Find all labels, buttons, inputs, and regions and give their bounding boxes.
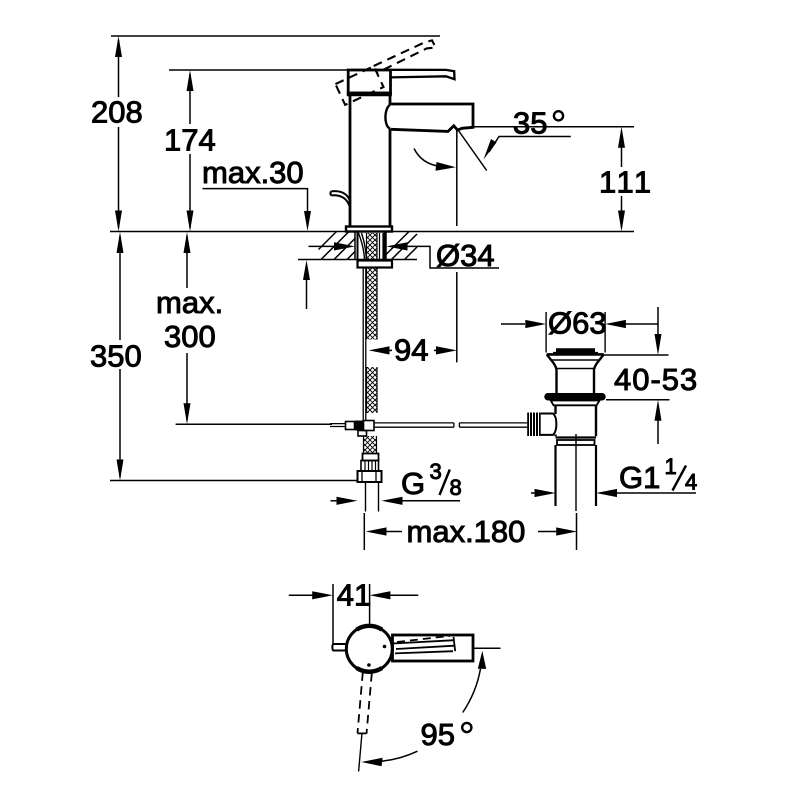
hose braid above G3/8 fitting — [364, 436, 377, 454]
35 swivel arc arrow — [414, 149, 440, 167]
dim 111 reference line at spout outlet — [474, 126, 634, 128]
faucet lever solid — [391, 70, 455, 79]
dim 40-53 extension lines — [604, 355, 670, 400]
95 arc arrowheads — [478, 651, 486, 669]
dim 208 arrows — [115, 36, 122, 232]
top view body circle — [346, 626, 392, 672]
braided hose through counter — [367, 233, 378, 260]
dim Ø34 arrows at shank — [334, 242, 355, 250]
pop-up rod coupling — [346, 422, 355, 430]
svg-text:G1: G1 — [619, 460, 660, 495]
dim max.300 arrows — [184, 232, 191, 424]
dim 35 leader arrowhead — [484, 139, 497, 160]
G3/8 threaded nipple — [366, 482, 379, 512]
counter bottom line — [298, 259, 417, 261]
dim Ø63 line and arrows — [501, 323, 525, 325]
dim max.180 arrows — [366, 527, 577, 535]
svg-text:41: 41 — [337, 578, 371, 613]
svg-text:300: 300 — [164, 319, 216, 354]
dim 41 extension lines — [333, 584, 370, 644]
svg-text:Ø34: Ø34 — [436, 238, 495, 273]
drain knurled knob — [527, 413, 541, 437]
faucet cartridge housing — [348, 70, 390, 93]
coupling lower tab — [358, 431, 367, 437]
svg-text:350: 350 — [90, 339, 142, 374]
svg-text:max.30: max.30 — [202, 155, 304, 190]
faucet lever + cartridge dashed (rotated position) — [335, 39, 441, 105]
dim 174 vertical line — [189, 74, 191, 228]
pop-up rod knob on body — [330, 191, 350, 206]
dim 208 vertical line — [118, 40, 120, 228]
dim 350 arrows — [117, 232, 124, 481]
drain top flange — [547, 353, 604, 356]
svg-text:1: 1 — [665, 454, 677, 479]
shank tube walls in hole — [358, 232, 385, 260]
95 degree arc — [463, 669, 481, 713]
dim G3/8 arrows — [331, 500, 339, 502]
top view lever dashed (down position) — [358, 672, 363, 733]
drain knob socket — [541, 414, 557, 435]
G3/8 nut — [358, 471, 382, 482]
drain tailpipe center line — [575, 434, 577, 511]
dim 350 bottom reference line — [110, 480, 358, 482]
dim 111 arrows — [618, 127, 625, 232]
curved hose inside shank — [359, 233, 367, 260]
drain flared neck — [547, 354, 604, 393]
dim max.30 bottom arrow — [303, 260, 310, 280]
drain pop-up plug cap — [556, 348, 595, 352]
drain lower bands — [556, 436, 597, 438]
svg-text:40-53: 40-53 — [614, 362, 698, 397]
spout outline — [390, 104, 473, 131]
top view pop-up rod tab — [332, 644, 346, 651]
horizontal pop-up rod — [374, 423, 454, 427]
counter hatching left — [319, 232, 356, 260]
svg-text:174: 174 — [164, 123, 216, 158]
locknut below counter — [358, 261, 393, 268]
svg-text:95: 95 — [421, 717, 455, 752]
dim Ø34 leader — [405, 246, 499, 268]
dim 208 top reference line — [111, 35, 440, 37]
dim Ø63 extension lines — [546, 312, 605, 353]
horizontal rod to coupling left end — [330, 424, 346, 427]
top view spout rectangle — [393, 635, 474, 661]
top view spout axis reference line — [473, 647, 501, 649]
drain flange below gasket — [551, 401, 600, 406]
svg-text:max.180: max.180 — [407, 514, 526, 549]
G3/8 ribbed section — [361, 461, 379, 472]
dim 350 vertical line — [119, 236, 121, 477]
pop-up rod housing in shank — [380, 233, 384, 260]
counter hatching right — [386, 232, 417, 260]
dim 174 arrows — [187, 70, 194, 232]
dim 35 underline and leader — [489, 137, 571, 153]
counter top line — [110, 231, 634, 233]
faucet body walls — [349, 96, 352, 227]
svg-text:3: 3 — [430, 459, 442, 484]
dim G1 1/4 line and arrows — [531, 492, 538, 494]
35 degree flow axis line — [457, 129, 487, 171]
top view lever — [397, 636, 450, 642]
dim max.300 bottom reference line — [176, 423, 332, 425]
spout-body joint arc — [385, 105, 390, 129]
drain gasket (black ring) — [548, 393, 602, 401]
dim max.30 top arrow — [304, 211, 311, 231]
svg-text:111: 111 — [599, 165, 654, 200]
cartridge base thick band — [347, 92, 392, 97]
svg-text:4: 4 — [685, 470, 697, 495]
drain tailpipe walls — [556, 445, 597, 506]
pop-up vertical rod — [363, 268, 366, 421]
svg-text:G: G — [401, 466, 425, 501]
dim 174 reference line — [169, 69, 349, 71]
dim max.30 leader — [203, 189, 308, 213]
top view screw dots — [383, 645, 387, 649]
lever axis line — [359, 734, 362, 772]
dim 41 line and arrows — [289, 594, 314, 596]
dim 111 vertical line — [621, 131, 623, 228]
svg-text:208: 208 — [91, 95, 143, 130]
dim 40-53 vertical line and arrows — [657, 307, 659, 336]
svg-text:94: 94 — [394, 333, 428, 368]
svg-text:Ø63: Ø63 — [548, 306, 607, 341]
counter hole walls — [355, 232, 386, 260]
braided hose segment A — [367, 268, 378, 340]
drain body walls — [556, 405, 597, 436]
base flange — [346, 227, 392, 232]
G3/8 hose collar — [363, 454, 379, 461]
spout tip center line — [456, 130, 458, 362]
dim max.300 vertical line — [186, 236, 188, 420]
dim 94 line and arrows — [390, 349, 393, 351]
svg-text:max.: max. — [156, 285, 223, 320]
svg-text:35: 35 — [513, 106, 547, 141]
braided hose segment B — [367, 367, 378, 413]
dim max.180 ticks — [364, 513, 576, 550]
svg-text:8: 8 — [450, 475, 462, 500]
